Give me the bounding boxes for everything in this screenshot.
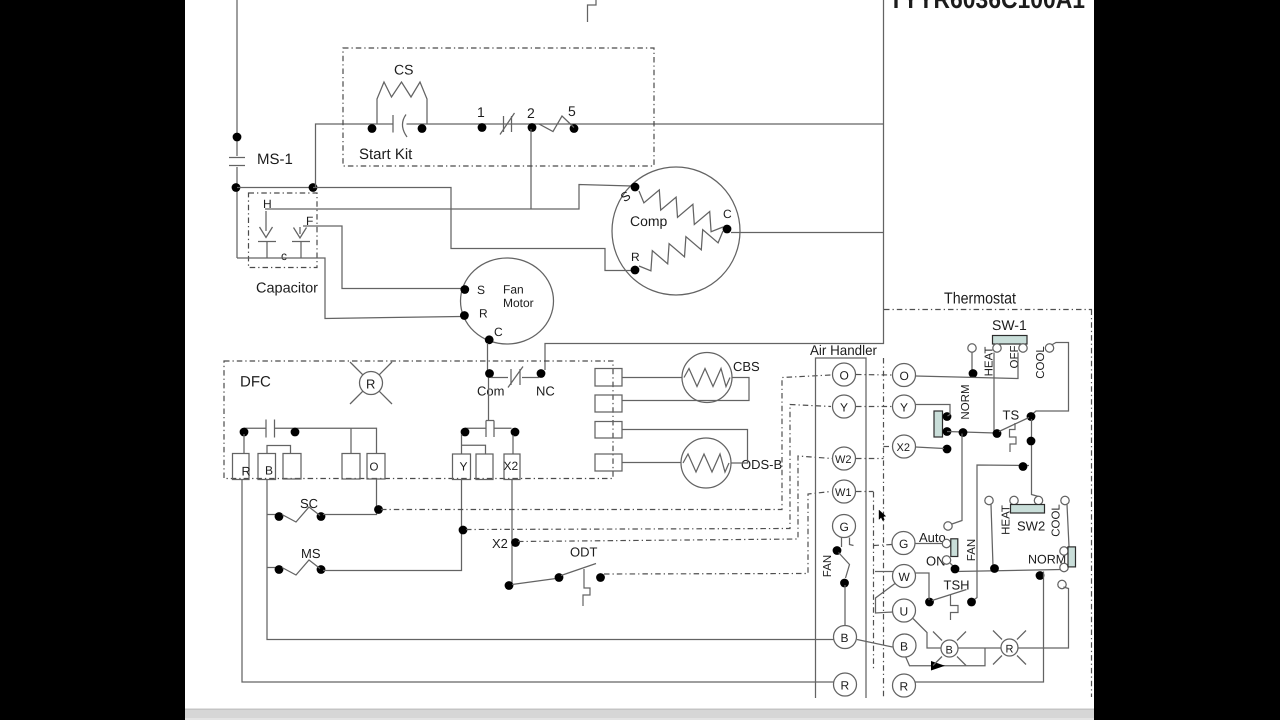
TS blade <box>999 418 1029 432</box>
terminal O <box>833 363 856 386</box>
wire X2 to NORM bottom <box>916 447 945 449</box>
svg-text:COOL: COOL <box>1035 346 1047 379</box>
contact SW-1 OFF <box>1019 344 1027 352</box>
node NORM mid <box>943 427 952 436</box>
capacitor CS coil <box>377 82 427 124</box>
wire Y-Y <box>856 406 892 408</box>
wire branch to box4 <box>350 428 352 453</box>
capacitor plates right T <box>292 241 310 243</box>
NORM upper slider bar <box>934 411 943 437</box>
wire TS right column <box>1032 419 1039 497</box>
FAN switch blade <box>839 553 850 579</box>
coil box B <box>258 454 276 480</box>
contact SC <box>267 479 834 640</box>
wire O-O <box>856 374 892 377</box>
svg-text:COOL: COOL <box>1051 504 1063 537</box>
stub to G thermostat <box>874 545 893 546</box>
svg-text:c: c <box>281 249 287 263</box>
wire Com to cap tie <box>488 378 490 421</box>
svg-text:C: C <box>723 207 732 221</box>
svg-text:Y: Y <box>460 460 468 474</box>
node X2 field tap <box>511 538 520 547</box>
node NORM top <box>943 412 952 421</box>
svg-text:Comp: Comp <box>630 213 668 229</box>
wire B col1 to B col2 <box>857 640 893 648</box>
SW-1 slider bar <box>993 336 1028 345</box>
terminal B air handler <box>834 626 857 649</box>
relay box 2 <box>595 395 622 412</box>
node FAN switch bottom <box>840 579 849 588</box>
svg-text:SW2: SW2 <box>1017 519 1045 534</box>
TSH thermal element <box>951 595 959 620</box>
terminal R thermostat <box>893 674 916 697</box>
svg-text:X2: X2 <box>504 459 519 473</box>
terminal X2 thermostat <box>893 435 916 458</box>
mouse cursor <box>879 510 886 521</box>
node comp C <box>723 225 732 234</box>
wire box4 to ODS-B left <box>622 462 681 464</box>
svg-text:R: R <box>900 680 909 694</box>
node ON tap <box>951 565 960 574</box>
wire NORM mid to TS <box>947 432 995 434</box>
wire: main left vertical <box>236 0 238 156</box>
svg-text:Thermostat: Thermostat <box>944 291 1016 308</box>
wire O to OFF <box>916 353 1019 379</box>
wire O relay to O terminal (field) <box>381 375 831 510</box>
svg-text:MS: MS <box>301 546 321 561</box>
contact SW2 mid <box>1034 496 1042 504</box>
lamp B rays <box>933 632 942 641</box>
TS thermal element <box>1010 423 1017 452</box>
wire R box to bottom rail <box>242 479 834 682</box>
svg-text:C: C <box>494 325 503 339</box>
heater ODS-B <box>681 438 731 488</box>
svg-text:MS-1: MS-1 <box>257 151 293 168</box>
field wire W <box>873 492 875 671</box>
wire SW1 pole1 drop <box>971 353 973 373</box>
Start Kit box <box>343 48 654 166</box>
node SC right <box>317 512 326 521</box>
wire below MS-1 <box>236 167 238 258</box>
wire fan selector riser <box>951 434 963 525</box>
SW2 slider bar <box>1011 505 1045 514</box>
node FAN switch top <box>833 546 842 555</box>
svg-text:CBS: CBS <box>733 359 760 374</box>
capacitor Y assembly <box>465 427 486 429</box>
coil box R <box>233 454 250 480</box>
coil box 6 <box>476 454 493 480</box>
stub X2 <box>884 446 893 448</box>
wire Y relay to Y terminal (field) <box>466 405 831 530</box>
svg-text:O: O <box>900 369 909 383</box>
svg-text:X2: X2 <box>492 536 508 551</box>
contact NORM lower mid <box>1060 563 1068 571</box>
wire ON to NORM rail <box>950 563 955 568</box>
F terminal arrow <box>299 227 301 234</box>
node SW2 tap <box>990 564 999 573</box>
node fan R <box>460 311 469 320</box>
compressor circle <box>612 167 740 295</box>
node TS column <box>1027 437 1036 446</box>
svg-text:U: U <box>900 605 909 619</box>
svg-text:1: 1 <box>477 104 485 120</box>
ODT thermal element <box>583 569 590 606</box>
node NC <box>537 369 546 378</box>
cut symbol top middle <box>588 0 597 22</box>
node on left vertical <box>233 133 242 142</box>
node Com <box>485 369 494 378</box>
contact SW-1 COOL <box>1045 344 1053 352</box>
node MS right <box>317 565 326 574</box>
wire SW2 cool drop <box>1066 505 1070 549</box>
terminal G thermostat <box>892 532 915 555</box>
svg-text:HEAT: HEAT <box>1001 505 1013 535</box>
node contact 5 <box>570 124 579 133</box>
contact NORM lower top <box>1060 547 1068 555</box>
svg-text:ODT: ODT <box>570 545 598 560</box>
contact SW2 COOL <box>1061 496 1069 504</box>
relay R circle <box>360 372 383 395</box>
thermostat right edge <box>1091 310 1093 698</box>
node SW1 pole1 <box>969 369 978 378</box>
capacitor plates left T <box>258 241 276 243</box>
node below MS-1 <box>232 183 241 192</box>
wire SC to O drop <box>323 510 377 515</box>
node ODT left <box>555 573 564 582</box>
svg-text:2: 2 <box>527 105 535 121</box>
contact SW2 HEAT <box>1010 496 1018 504</box>
SC blade <box>282 507 320 522</box>
relay box 4 <box>595 454 622 471</box>
svg-text:G: G <box>899 537 908 551</box>
thermostat boundary line <box>884 309 1092 311</box>
terminal W thermostat <box>893 565 916 588</box>
contact MS <box>267 567 278 569</box>
node fan S <box>460 285 469 294</box>
MS blade <box>282 560 320 575</box>
wire H rail to comp S <box>265 185 632 210</box>
coil box 3 <box>283 454 301 480</box>
svg-text:FAN: FAN <box>822 555 834 577</box>
capacitor left assembly wire <box>244 427 266 429</box>
Capacitor box <box>249 193 318 268</box>
svg-text:Y: Y <box>840 401 848 415</box>
svg-text:R: R <box>1006 644 1014 656</box>
svg-text:CS: CS <box>394 62 413 78</box>
svg-text:W2: W2 <box>835 454 852 466</box>
contact SW-1 HEAT <box>993 344 1001 352</box>
winding R-C <box>639 230 723 271</box>
svg-text:R: R <box>479 307 488 321</box>
svg-text:Y: Y <box>900 401 908 415</box>
svg-text:FAN: FAN <box>966 539 978 561</box>
wire dot to X2 box <box>512 435 514 454</box>
node NORM bottom <box>943 445 952 454</box>
node CS right <box>418 124 427 133</box>
relay box 1 <box>595 369 622 387</box>
terminal G <box>833 515 856 538</box>
wire fan C down to Com <box>487 343 489 370</box>
wire cap bottom rail <box>237 258 461 319</box>
terminal Y <box>833 395 856 418</box>
wire U to lamp rail <box>913 619 941 649</box>
bottom gray bar <box>185 709 1094 720</box>
svg-text:Capacitor: Capacitor <box>256 281 318 297</box>
contact Auto <box>942 539 950 547</box>
node Y cap right <box>511 428 520 437</box>
ODT blade <box>561 564 596 576</box>
svg-text:R: R <box>242 465 251 479</box>
wire SW2 pole1 to NORM wire <box>991 505 993 567</box>
wire G to Auto <box>915 543 942 545</box>
node comp R <box>631 266 640 275</box>
svg-text:W: W <box>899 570 911 584</box>
wire X2 to W2 terminal (field) <box>518 456 832 542</box>
contact fan top <box>944 522 952 530</box>
svg-text:R: R <box>841 679 850 693</box>
node cap right <box>291 428 300 437</box>
wire ODT to W1 terminal (field) <box>604 492 831 575</box>
node FAN branch <box>1019 462 1028 471</box>
node TSH right <box>967 598 976 607</box>
contact SW-1 pole1 <box>968 344 976 352</box>
node MS left <box>275 565 284 574</box>
coil box 4 <box>342 454 360 480</box>
wire X2 drop <box>511 479 513 585</box>
coil box Y <box>453 454 471 480</box>
svg-text:SC: SC <box>300 496 318 511</box>
wire right vertical rail <box>545 0 884 370</box>
terminal U thermostat <box>893 599 916 622</box>
stub W2 <box>856 458 884 460</box>
svg-text:Fan: Fan <box>503 283 524 297</box>
node R riser tap <box>1036 571 1045 580</box>
heater CBS <box>682 353 732 403</box>
svg-text:TS: TS <box>1003 408 1020 423</box>
svg-text:DFC: DFC <box>240 374 271 391</box>
relay box 3 <box>595 422 622 439</box>
svg-text:Start Kit: Start Kit <box>359 146 413 163</box>
contact SW2 pole1 <box>985 496 993 504</box>
svg-text:B: B <box>900 640 908 654</box>
svg-text:G: G <box>840 520 849 534</box>
node at 313,187 <box>309 183 318 192</box>
wire R col2 to NORM rail <box>916 572 1044 683</box>
svg-text:B: B <box>265 464 273 478</box>
svg-text:NORM: NORM <box>960 384 972 419</box>
node TS left <box>993 429 1002 438</box>
node cap left <box>240 428 249 437</box>
wire O box drop <box>376 479 378 510</box>
capacitor MS-1 <box>229 157 245 159</box>
wire F to fan S <box>303 226 462 289</box>
wire dot to R box <box>243 434 245 454</box>
wire box3 to ODS-B right <box>622 430 748 464</box>
wire COOL to TS right <box>1032 343 1069 415</box>
node TSH left <box>925 598 934 607</box>
contact 2-5 blade <box>539 116 574 132</box>
wire NORM rail <box>955 570 1061 572</box>
wire W-U jog <box>875 571 894 573</box>
node contact 2 <box>528 123 537 132</box>
switch FAN air handler <box>841 538 843 548</box>
svg-text:R: R <box>631 250 640 264</box>
lamp B circle <box>941 640 958 657</box>
terminal Y thermostat <box>893 395 916 418</box>
terminal B thermostat <box>893 634 916 657</box>
wire FAN branch <box>973 465 1029 601</box>
H terminal arrow <box>265 211 267 231</box>
node comp S <box>631 183 640 192</box>
NORM lower slider bar <box>1068 547 1076 567</box>
svg-text:S: S <box>477 283 485 297</box>
contact ON <box>942 556 950 564</box>
node ODT right <box>596 573 605 582</box>
node contact 1 <box>478 123 487 132</box>
svg-text:X2: X2 <box>897 442 910 454</box>
white content area <box>185 0 1094 720</box>
node Y cap left <box>461 428 470 437</box>
node CS left <box>368 124 377 133</box>
wire MS to Y drop <box>323 479 462 571</box>
node SC left <box>275 512 284 521</box>
winding S-C <box>639 190 723 232</box>
node fan selector tap <box>959 428 968 437</box>
svg-text:O: O <box>370 462 379 474</box>
svg-text:R: R <box>366 377 375 392</box>
bracket B-box3 <box>267 446 291 454</box>
wire lamp rail <box>958 647 1001 649</box>
terminal W1 <box>833 480 856 503</box>
contact NORM lower bottom <box>1058 580 1066 588</box>
node O relay junction <box>374 505 383 514</box>
lamp R <box>1001 639 1018 656</box>
svg-text:TYYR6036C100A1: TYYR6036C100A1 <box>889 0 1085 14</box>
svg-text:SW-1: SW-1 <box>992 317 1027 333</box>
node X2 bottom <box>505 581 514 590</box>
svg-text:5: 5 <box>568 103 576 119</box>
terminal O thermostat <box>893 364 916 387</box>
DFC box <box>224 361 613 479</box>
capacitor CS plates <box>392 115 394 133</box>
air handler / thermostat divider <box>883 358 885 697</box>
right black pillar <box>1094 0 1280 720</box>
terminal W2 <box>833 447 856 470</box>
wire dot to Y box + bracket <box>461 434 463 454</box>
wire CBS to box2 <box>622 378 749 401</box>
wire comp C to right rail <box>731 232 884 234</box>
node TS right <box>1027 412 1036 421</box>
relay R lamp rays <box>350 362 392 404</box>
svg-text:NC: NC <box>536 384 555 399</box>
svg-text:Motor: Motor <box>503 296 534 310</box>
node Y field tap <box>459 526 468 535</box>
stub W1 <box>856 491 874 493</box>
lamp R rays <box>993 631 1002 640</box>
svg-text:W1: W1 <box>835 487 852 499</box>
wire box1 to CBS <box>622 377 682 379</box>
wire B arrow path <box>906 657 946 666</box>
wire rail y187 to comp R <box>313 188 632 271</box>
fan motor circle <box>461 258 554 344</box>
coil box X2 <box>504 454 520 480</box>
left black pillar <box>0 0 185 720</box>
Auto/ON slider bar <box>951 539 958 557</box>
svg-text:Air Handler: Air Handler <box>810 342 877 358</box>
coil box O <box>367 454 385 480</box>
contact 1 <box>503 116 505 132</box>
terminal R air handler <box>834 673 857 696</box>
wire contact2 drop to H rail <box>530 129 532 209</box>
wire W to TSH <box>916 573 930 600</box>
svg-text:B: B <box>946 645 953 657</box>
svg-text:O: O <box>840 369 849 383</box>
svg-text:B: B <box>841 631 849 645</box>
arrowhead B wire <box>931 661 945 671</box>
wire Y to NORM top <box>916 405 951 417</box>
svg-text:Com: Com <box>477 384 504 399</box>
wire riser to top rail <box>316 124 393 188</box>
wire HEAT drop to TS rail <box>993 353 995 433</box>
svg-text:OFF: OFF <box>1009 346 1021 369</box>
node fan C <box>485 335 494 344</box>
wire to ODT <box>512 579 556 585</box>
wire rail y187 <box>237 187 313 189</box>
TSH blade <box>932 590 967 601</box>
